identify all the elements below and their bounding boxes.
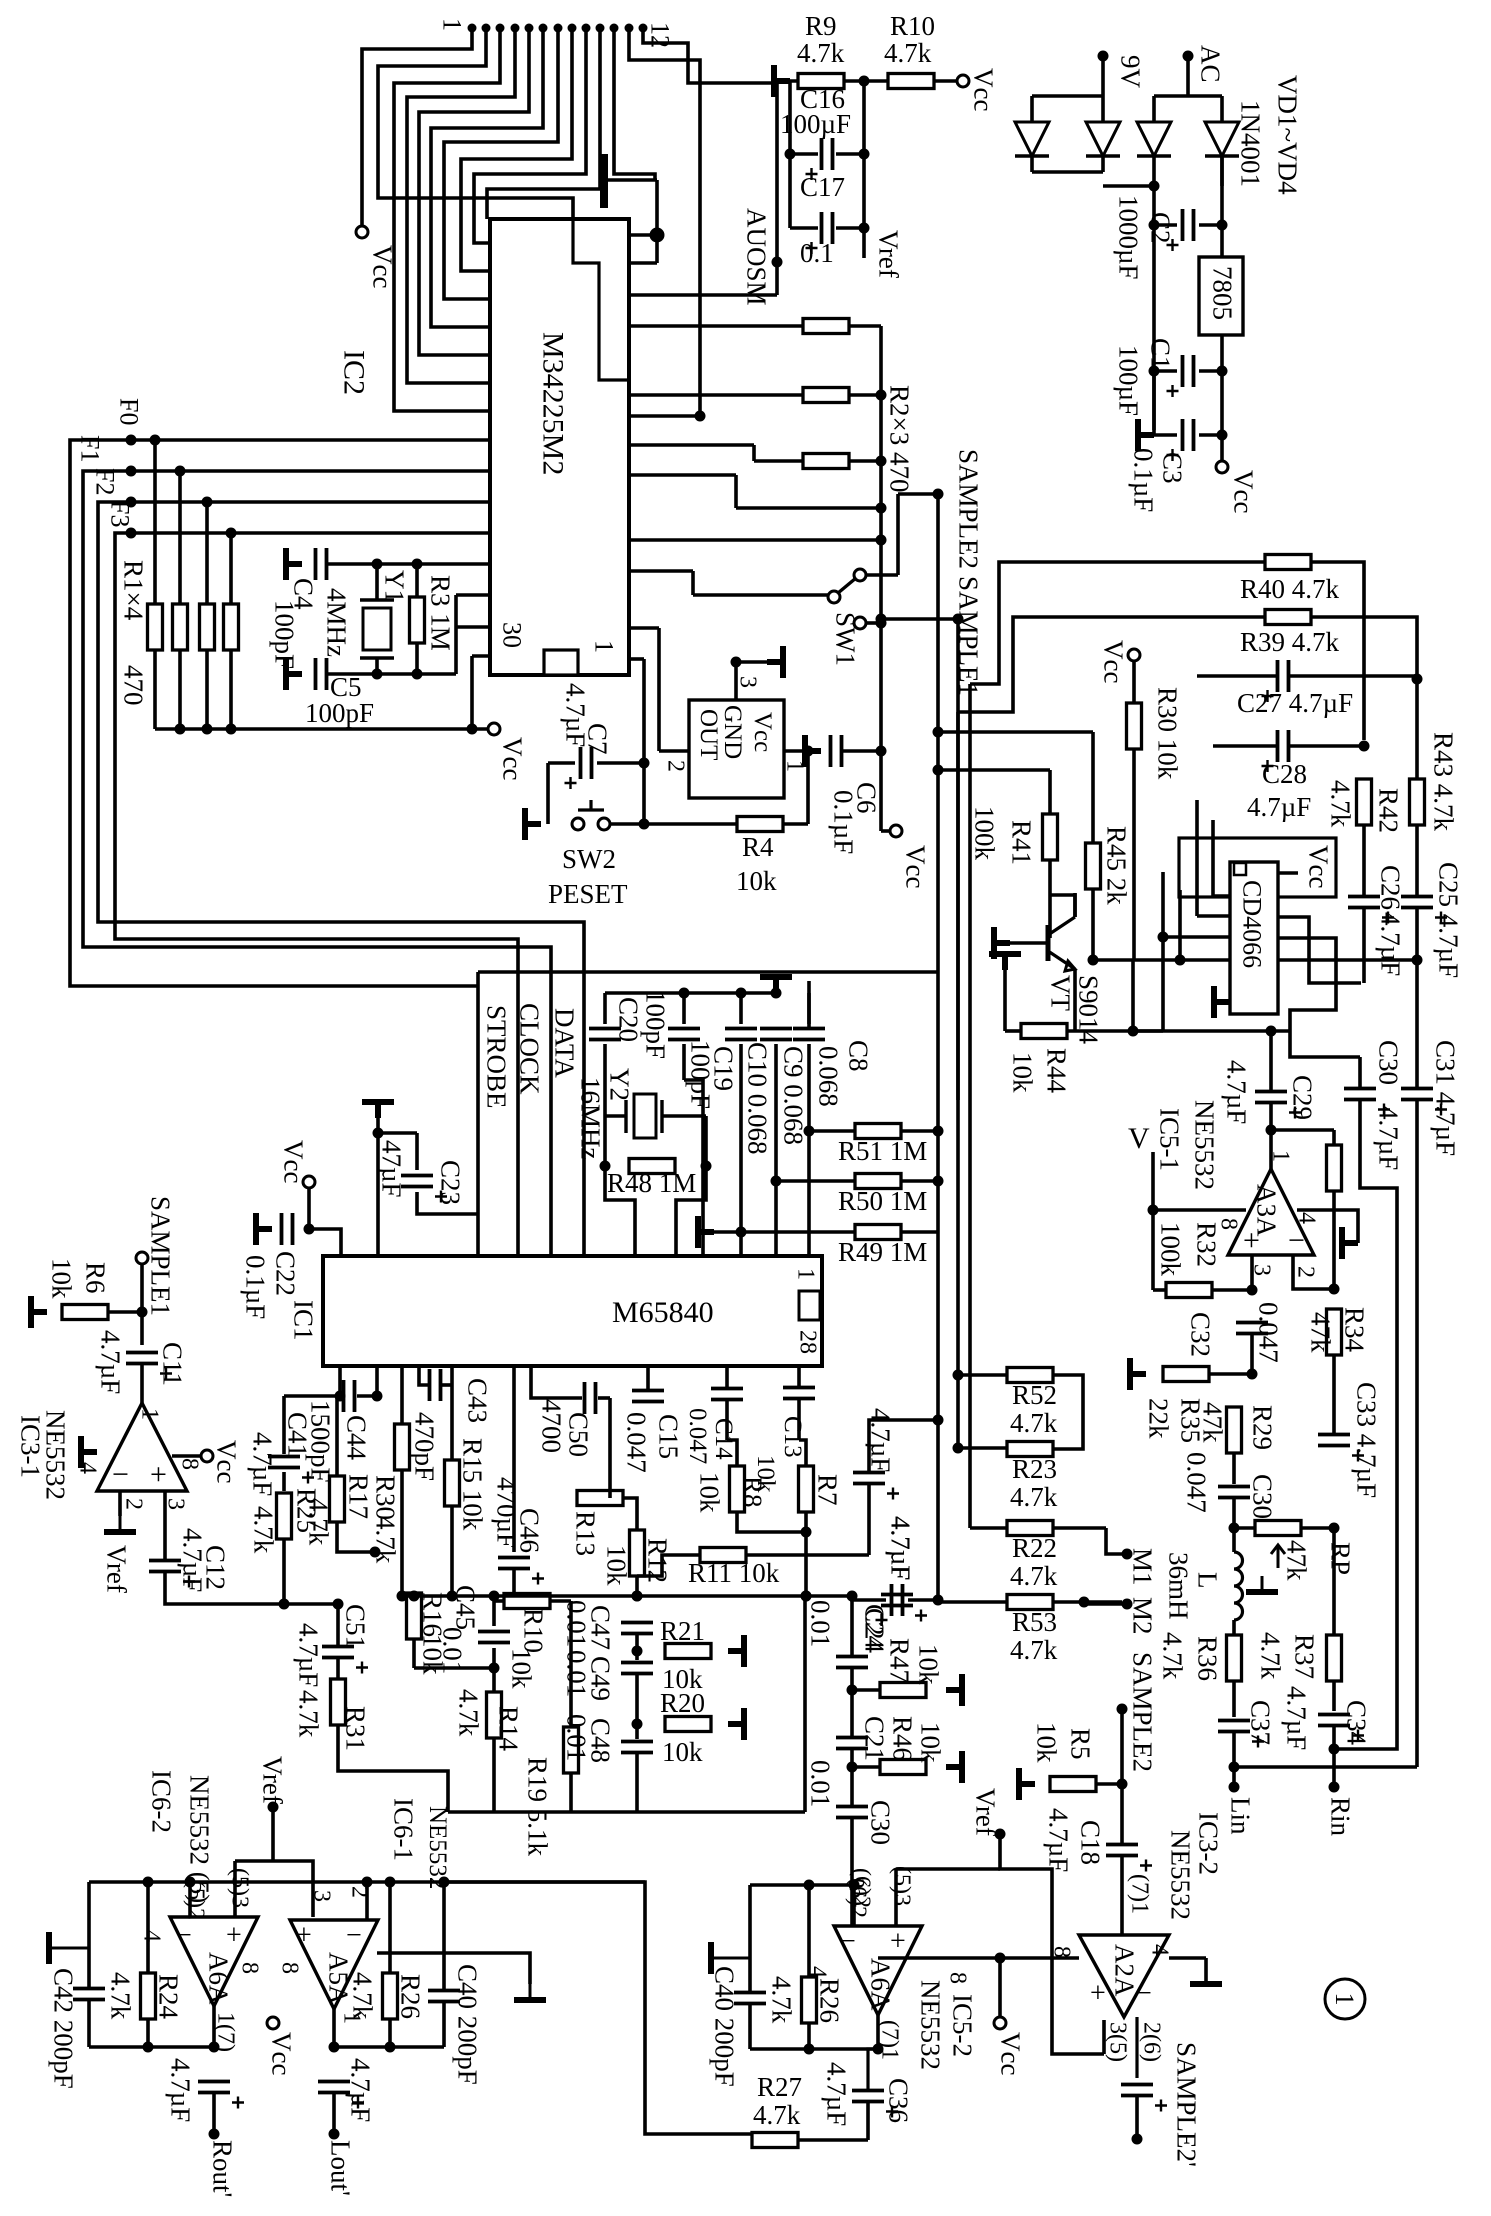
capacitor C45 bbox=[478, 1632, 510, 1643]
wire SAMPLE2 net bbox=[629, 538, 881, 542]
wire bbox=[774, 1044, 778, 1181]
wire bbox=[492, 1596, 496, 1626]
wire bbox=[1415, 908, 1419, 960]
svg-text:(5)3: (5)3 bbox=[226, 1868, 252, 1908]
wire bbox=[334, 2045, 444, 2049]
svg-text:Y1: Y1 bbox=[379, 570, 409, 603]
svg-text:(6)2: (6)2 bbox=[848, 1868, 874, 1908]
svg-text:0.01: 0.01 bbox=[805, 1760, 835, 1807]
terminal Lin bbox=[1229, 1782, 1240, 1793]
ground bbox=[711, 1957, 750, 1960]
bus SAMPLE2 vert bbox=[936, 494, 940, 972]
svg-text:(5)3: (5)3 bbox=[888, 1866, 914, 1906]
regulator 7805 bbox=[1199, 257, 1243, 335]
wire bbox=[774, 1181, 778, 1256]
wire bbox=[1358, 1057, 1362, 1088]
wire bbox=[1135, 2017, 1138, 2078]
capacitor C20 bbox=[589, 1029, 621, 1040]
capacitor C18 bbox=[1106, 1845, 1138, 1856]
svg-text:1: 1 bbox=[792, 1268, 818, 1280]
wire bbox=[376, 1118, 380, 1256]
svg-text:C33 4.7µF: C33 4.7µF bbox=[1351, 1382, 1381, 1498]
wire bbox=[842, 749, 881, 753]
svg-text:R23: R23 bbox=[1012, 1454, 1057, 1484]
capacitor C40a bbox=[428, 1991, 460, 2002]
wire bbox=[1128, 1026, 1139, 1037]
capacitor C49 bbox=[621, 1663, 653, 1674]
ground bbox=[81, 1436, 97, 1468]
wire bbox=[1362, 908, 1366, 983]
svg-text:4.7µF: 4.7µF bbox=[345, 2058, 375, 2122]
wire bbox=[357, 1394, 377, 1398]
svg-text:IC5-1: IC5-1 bbox=[1154, 1108, 1184, 1171]
wire pin4 bbox=[1169, 1956, 1206, 1960]
wire bbox=[335, 1396, 339, 1476]
wire pin9 bbox=[474, 28, 586, 243]
wire R52 bbox=[958, 1373, 1007, 1377]
wire bbox=[836, 226, 864, 230]
svg-text:R51 1M: R51 1M bbox=[838, 1136, 927, 1166]
wire bbox=[737, 1512, 806, 1532]
wire bbox=[1290, 1031, 1360, 1057]
svg-text:10k: 10k bbox=[1031, 1722, 1061, 1763]
IC U1 M65840 bbox=[323, 1256, 822, 1366]
ground bbox=[728, 1635, 744, 1667]
wire bbox=[807, 981, 811, 1024]
bus bbox=[879, 326, 883, 831]
ground bbox=[1130, 1358, 1146, 1390]
svg-text:C28: C28 bbox=[1262, 759, 1307, 789]
wire bbox=[1332, 1130, 1336, 1145]
ground bbox=[49, 1947, 89, 1950]
capacitor C48 bbox=[621, 1742, 653, 1753]
capacitor C9 bbox=[760, 1029, 792, 1040]
svg-text:C51: C51 bbox=[340, 1604, 370, 1649]
svg-text:8: 8 bbox=[944, 1972, 970, 1984]
resistor R49 bbox=[855, 1225, 901, 1240]
svg-text:PESET: PESET bbox=[548, 879, 628, 909]
svg-text:R31: R31 bbox=[340, 1706, 370, 1751]
svg-text:10k: 10k bbox=[736, 866, 777, 896]
svg-text:C46: C46 bbox=[514, 1508, 544, 1553]
svg-text:3: 3 bbox=[734, 676, 760, 688]
wire bbox=[512, 1569, 516, 1596]
svg-text:Vref: Vref bbox=[257, 1756, 287, 1804]
svg-text:100k: 100k bbox=[1155, 1222, 1185, 1277]
wire bbox=[866, 621, 881, 625]
resistor R21 bbox=[665, 1644, 711, 1659]
svg-text:Vcc: Vcc bbox=[900, 845, 930, 888]
wire bbox=[807, 1885, 811, 1977]
svg-text:C1: C1 bbox=[1145, 338, 1175, 370]
wire pin1 IC2 bottom bbox=[642, 659, 646, 824]
svg-text:R26: R26 bbox=[814, 1978, 844, 2023]
svg-text:R30 10k: R30 10k bbox=[1152, 687, 1182, 780]
wire bbox=[1232, 1528, 1236, 1552]
wire bbox=[212, 2093, 216, 2134]
svg-text:V: V bbox=[1128, 1122, 1150, 1155]
VCC terminal bbox=[1216, 461, 1228, 473]
op-amp A3A IC5-1 bbox=[1228, 1169, 1314, 1255]
svg-text:SAMPLE2: SAMPLE2 bbox=[1127, 1652, 1157, 1772]
capacitor C30b bbox=[1344, 1089, 1376, 1100]
diode VD4 bbox=[1205, 122, 1239, 156]
wire A6A out bbox=[212, 2006, 216, 2047]
wire pin8 bbox=[461, 28, 572, 271]
wire pin3 bbox=[163, 1491, 167, 1560]
wire bbox=[849, 393, 881, 397]
svg-text:−: − bbox=[176, 1920, 192, 1951]
wire bbox=[736, 660, 767, 664]
capacitor C10 bbox=[725, 1029, 757, 1040]
resistor R47 bbox=[880, 1683, 926, 1698]
svg-text:C36: C36 bbox=[883, 2078, 913, 2123]
wire bbox=[1311, 617, 1417, 679]
svg-text:C19: C19 bbox=[708, 1046, 738, 1091]
wire bbox=[901, 1230, 938, 1234]
svg-text:C23: C23 bbox=[435, 1160, 465, 1205]
wire bbox=[1053, 1600, 1122, 1604]
svg-text:4.7µF: 4.7µF bbox=[1281, 1686, 1311, 1750]
wire bbox=[442, 2002, 446, 2047]
svg-text:L: L bbox=[1192, 1572, 1222, 1589]
resistor R1c bbox=[200, 604, 215, 650]
ground bbox=[31, 1296, 47, 1328]
svg-text:R6: R6 bbox=[80, 1262, 110, 1294]
wire bbox=[1101, 56, 1105, 96]
svg-text:GND: GND bbox=[719, 705, 746, 759]
svg-text:0.1µF: 0.1µF bbox=[828, 790, 858, 854]
wire F3 bbox=[115, 533, 518, 1256]
svg-text:Vref: Vref bbox=[873, 230, 903, 278]
svg-text:0.1: 0.1 bbox=[800, 238, 834, 268]
svg-text:Lout': Lout' bbox=[325, 2140, 355, 2196]
resistor R31 bbox=[331, 1679, 346, 1725]
wire bbox=[165, 1572, 338, 1604]
resistor R2a bbox=[803, 319, 849, 334]
svg-text:R10: R10 bbox=[518, 1608, 548, 1653]
svg-text:0.01: 0.01 bbox=[805, 1600, 835, 1647]
svg-text:4.7µF: 4.7µF bbox=[293, 1623, 323, 1687]
svg-text:C21: C21 bbox=[859, 1716, 889, 1761]
wire pin1 bbox=[784, 749, 808, 753]
svg-text:16MHz: 16MHz bbox=[575, 1077, 605, 1160]
wire pin2 bbox=[118, 1491, 122, 1516]
wire A6A2 to A2A bbox=[878, 1956, 1079, 1960]
wire A5A out bbox=[332, 2009, 336, 2047]
wire bbox=[849, 459, 881, 463]
terminal M1 bbox=[1122, 1549, 1133, 1560]
wire bridge bottom bbox=[1030, 156, 1034, 172]
capacitor C51 bbox=[322, 1647, 354, 1658]
capacitor C50 bbox=[585, 1382, 596, 1414]
svg-text:IC1: IC1 bbox=[288, 1300, 318, 1341]
switch SW2 bbox=[572, 818, 584, 830]
wire bbox=[1000, 1834, 1104, 2054]
wire bbox=[1135, 2096, 1139, 2139]
svg-text:Vcc: Vcc bbox=[1228, 470, 1258, 513]
svg-text:2: 2 bbox=[662, 760, 688, 772]
svg-text:SAMPLE2': SAMPLE2' bbox=[1171, 2042, 1201, 2167]
wire bbox=[605, 1166, 635, 1256]
wire bbox=[646, 1366, 650, 1391]
svg-text:R40 4.7k: R40 4.7k bbox=[1240, 574, 1340, 604]
wire bbox=[388, 1882, 392, 1973]
wire Vref bbox=[862, 228, 866, 258]
svg-text:47µF: 47µF bbox=[376, 1140, 406, 1198]
capacitor C12 bbox=[149, 1561, 181, 1572]
svg-text:Rout': Rout' bbox=[207, 2140, 237, 2197]
svg-text:NE5532: NE5532 bbox=[424, 1806, 451, 1889]
wire bbox=[797, 1366, 801, 1388]
wire bbox=[1073, 893, 1077, 917]
VCC terminal bbox=[957, 75, 969, 87]
wire bbox=[629, 443, 754, 447]
wire A6A2 out bbox=[876, 2015, 880, 2049]
svg-text:R15 10k: R15 10k bbox=[457, 1438, 487, 1531]
svg-text:R42: R42 bbox=[1373, 788, 1403, 833]
wire bbox=[803, 1596, 807, 1812]
svg-text:4.7µF: 4.7µF bbox=[1373, 1106, 1403, 1170]
svg-text:0.047: 0.047 bbox=[1253, 1302, 1283, 1363]
svg-text:−: − bbox=[1288, 1224, 1305, 1257]
svg-text:R20: R20 bbox=[660, 1688, 705, 1718]
wire bbox=[852, 1885, 856, 1926]
bar marker bbox=[600, 154, 608, 208]
diode VD1 bbox=[1015, 122, 1049, 156]
svg-text:RP: RP bbox=[1325, 1542, 1355, 1575]
svg-text:NE5532: NE5532 bbox=[1189, 1100, 1219, 1190]
wire bbox=[1132, 749, 1136, 960]
node AC top bbox=[1183, 51, 1194, 62]
svg-text:36mH: 36mH bbox=[1163, 1552, 1193, 1620]
svg-text:AC: AC bbox=[1195, 45, 1225, 83]
resistor R26b bbox=[802, 1977, 817, 2023]
capacitor 4.7uF a bbox=[853, 1473, 885, 1484]
wire V bbox=[1151, 1152, 1155, 1290]
wire VT collector bbox=[1050, 895, 1075, 917]
svg-text:A6A: A6A bbox=[865, 1958, 895, 2011]
wire bbox=[1271, 1128, 1334, 1132]
wire bbox=[1332, 1749, 1336, 1787]
svg-text:0.01: 0.01 bbox=[561, 1650, 591, 1697]
wire bbox=[881, 829, 890, 833]
svg-text:C3: C3 bbox=[1157, 452, 1187, 484]
resistor R2c bbox=[803, 454, 849, 469]
resistor R40 bbox=[1265, 555, 1311, 570]
resistor R8 bbox=[730, 1466, 745, 1512]
svg-text:4.7µF: 4.7µF bbox=[177, 1528, 207, 1592]
svg-text:R45 2k: R45 2k bbox=[1101, 826, 1131, 905]
svg-text:30: 30 bbox=[498, 622, 527, 648]
wire bbox=[603, 1116, 607, 1166]
wire bbox=[569, 1774, 573, 1812]
ground bbox=[946, 1674, 962, 1706]
wire bbox=[377, 1953, 530, 1984]
svg-text:10k: 10k bbox=[915, 1722, 945, 1763]
wire bbox=[635, 1634, 639, 1660]
svg-text:C26: C26 bbox=[1375, 865, 1405, 910]
wire bbox=[1234, 1765, 1417, 1769]
wire bbox=[1269, 1103, 1273, 1130]
potentiometer RP bbox=[1255, 1521, 1301, 1536]
ground bbox=[104, 1516, 136, 1532]
svg-text:4.7k: 4.7k bbox=[884, 38, 932, 68]
svg-text:R48 1M: R48 1M bbox=[607, 1168, 696, 1198]
svg-text:C42 200pF: C42 200pF bbox=[48, 1968, 78, 2089]
svg-text:R24: R24 bbox=[153, 1974, 183, 2020]
resistor R36 bbox=[1227, 1635, 1242, 1681]
capacitor 4.7uF C24 bbox=[881, 1595, 913, 1606]
svg-text:IC3-1: IC3-1 bbox=[15, 1415, 45, 1478]
wire R22 bbox=[970, 1526, 1007, 1530]
wire bbox=[629, 414, 700, 418]
svg-text:4.7k: 4.7k bbox=[293, 1690, 323, 1738]
ground bbox=[946, 1751, 962, 1783]
resistor R43 bbox=[1410, 779, 1425, 825]
svg-text:R19 5.1k: R19 5.1k bbox=[522, 1757, 552, 1857]
svg-text:Vcc: Vcc bbox=[1098, 640, 1128, 683]
resistor R32 bbox=[1166, 1283, 1212, 1298]
svg-text:R36: R36 bbox=[1192, 1636, 1222, 1681]
resistor R17 bbox=[330, 1476, 345, 1522]
wire bbox=[852, 1596, 886, 1600]
svg-text:8: 8 bbox=[276, 1962, 302, 1974]
resistor R39 bbox=[1265, 610, 1311, 625]
wire bbox=[682, 1044, 686, 1080]
capacitor C16 bbox=[822, 138, 833, 170]
wire bbox=[866, 2102, 870, 2140]
resistor R4 bbox=[737, 817, 783, 832]
wire bbox=[282, 1396, 286, 1454]
wire bbox=[901, 1129, 938, 1133]
svg-text:+: + bbox=[226, 1920, 242, 1951]
svg-text:R50 1M: R50 1M bbox=[838, 1186, 927, 1216]
svg-text:R46: R46 bbox=[887, 1716, 917, 1761]
wire bbox=[790, 152, 818, 156]
svg-text:C30: C30 bbox=[865, 1800, 895, 1845]
svg-text:SAMPLE2: SAMPLE2 bbox=[953, 449, 983, 569]
wire bus 1812 bbox=[448, 1810, 805, 1814]
wire bbox=[512, 1366, 516, 1552]
node SAMPLE2 bbox=[933, 489, 944, 500]
svg-text:R10: R10 bbox=[890, 11, 935, 41]
wire bbox=[644, 822, 737, 826]
svg-text:Vcc: Vcc bbox=[497, 737, 527, 780]
svg-text:C41: C41 bbox=[282, 1412, 312, 1457]
crystal Y1 bbox=[375, 564, 379, 600]
capacitor C11 bbox=[126, 1353, 158, 1364]
wire bbox=[1005, 1029, 1021, 1033]
wire bbox=[934, 79, 958, 83]
svg-text:R3 1M: R3 1M bbox=[425, 575, 455, 651]
capacitor C17 bbox=[822, 212, 833, 244]
svg-text:1: 1 bbox=[1330, 1993, 1359, 2006]
wire bbox=[623, 1498, 637, 1530]
resistor R24 bbox=[141, 1973, 156, 2019]
svg-text:C10 0.068: C10 0.068 bbox=[742, 1042, 772, 1155]
svg-text:R21: R21 bbox=[660, 1616, 705, 1646]
wire bbox=[307, 1188, 311, 1229]
wire bbox=[450, 1506, 454, 1596]
wire pin4 gnd bbox=[1297, 1210, 1358, 1243]
svg-text:4.7k: 4.7k bbox=[453, 1689, 483, 1737]
svg-text:4.7k: 4.7k bbox=[1010, 1635, 1058, 1665]
svg-text:4.7k: 4.7k bbox=[347, 1972, 377, 2020]
wire bbox=[1332, 1355, 1336, 1407]
wire AUOSM stub bbox=[775, 262, 779, 295]
wire pin3 bbox=[734, 662, 738, 700]
wire bbox=[327, 562, 377, 566]
svg-text:47k: 47k bbox=[1197, 1402, 1227, 1443]
terminal SAMPLE1 bbox=[136, 1252, 148, 1264]
wire bbox=[750, 2047, 878, 2051]
svg-text:CLOCK: CLOCK bbox=[514, 1003, 544, 1095]
wire bbox=[629, 233, 657, 237]
capacitor C33 bbox=[1318, 1435, 1350, 1446]
bus SAMPLE1 vert bbox=[956, 619, 960, 1100]
svg-text:4.7k: 4.7k bbox=[303, 1498, 333, 1546]
bus R40net lower bbox=[968, 684, 972, 1528]
wire bbox=[1415, 960, 1419, 1088]
wire C7 loop bbox=[546, 763, 550, 824]
svg-text:R27: R27 bbox=[757, 2072, 802, 2102]
ground bbox=[760, 977, 792, 993]
wire bbox=[140, 1364, 144, 1403]
wire bbox=[1332, 1528, 1336, 1635]
svg-text:4.7µF: 4.7µF bbox=[247, 1432, 277, 1496]
svg-text:10k: 10k bbox=[752, 1455, 779, 1493]
wire bbox=[377, 672, 456, 676]
svg-text:NE5532: NE5532 bbox=[1165, 1830, 1195, 1920]
wire bbox=[188, 1882, 192, 1917]
wire bbox=[844, 79, 888, 83]
wire bbox=[442, 1882, 446, 1990]
svg-text:R32: R32 bbox=[1191, 1222, 1221, 1267]
resistor R45 bbox=[1086, 843, 1101, 889]
wire bbox=[378, 1131, 417, 1135]
capacitor C7 bbox=[581, 747, 592, 779]
wire bbox=[1091, 732, 1095, 843]
svg-text:10k: 10k bbox=[662, 1737, 703, 1767]
capacitor C15 bbox=[632, 1391, 664, 1402]
svg-text:4.7µF: 4.7µF bbox=[560, 683, 590, 747]
wire bbox=[1232, 1453, 1236, 1484]
wire bbox=[1096, 1782, 1122, 1786]
inductor L 36mH bbox=[1234, 1552, 1243, 1620]
wire bbox=[1120, 1784, 1124, 1844]
svg-text:2(6): 2(6) bbox=[1138, 2022, 1164, 2062]
svg-text:4.7k: 4.7k bbox=[105, 1972, 135, 2020]
resistor R30 bbox=[1127, 703, 1142, 749]
resistor R41 bbox=[1043, 814, 1058, 860]
ground bbox=[1342, 1227, 1358, 1259]
resistor R26a bbox=[383, 1973, 398, 2019]
capacitor C13 bbox=[783, 1388, 815, 1399]
ground bbox=[525, 808, 541, 840]
svg-text:C18: C18 bbox=[1075, 1820, 1105, 1865]
svg-text:10k: 10k bbox=[46, 1258, 76, 1299]
terminal M2 bbox=[1122, 1599, 1133, 1610]
svg-text:R44: R44 bbox=[1041, 1048, 1071, 1094]
wire pin4 bbox=[407, 28, 515, 383]
svg-text:C8: C8 bbox=[843, 1040, 873, 1072]
wire bbox=[1332, 1681, 1336, 1711]
svg-text:1: 1 bbox=[438, 18, 467, 31]
wire rail- bbox=[1220, 156, 1224, 225]
IC U2 M34225M2 bbox=[490, 219, 629, 675]
svg-text:4.7µF: 4.7µF bbox=[1375, 912, 1405, 976]
